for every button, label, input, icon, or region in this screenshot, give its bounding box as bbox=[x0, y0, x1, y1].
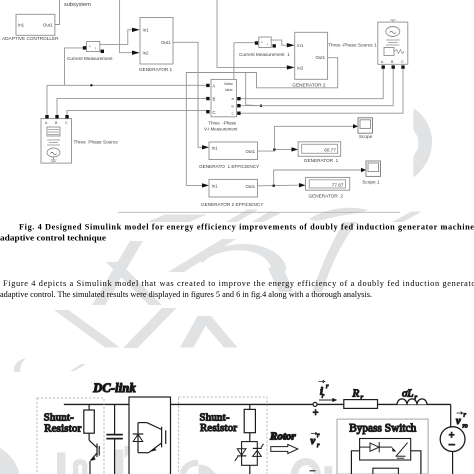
svg-text:r: r bbox=[317, 443, 320, 449]
svg-text:a: a bbox=[232, 96, 235, 101]
bypass inner box 2 bbox=[373, 468, 399, 474]
svg-text:σL: σL bbox=[402, 388, 414, 400]
svg-text:c: c bbox=[232, 111, 234, 116]
wire phase B from source to V-I measurement bbox=[57, 99, 208, 115]
svg-text:subsystem: subsystem bbox=[64, 2, 91, 8]
arrowhead In1 GENERATOR 2 EFFICIENCY bbox=[202, 183, 209, 187]
block Three Phase V-I Measurement bbox=[211, 79, 236, 116]
svg-text:B: B bbox=[213, 97, 216, 102]
svg-text:r: r bbox=[464, 413, 467, 419]
top simulink figure bbox=[2, 0, 408, 212]
wire GENERATOR 1 Out1 down to efficiency block bbox=[173, 42, 202, 147]
block Current Measurement bbox=[87, 42, 100, 52]
caption and paragraph bbox=[0, 222, 474, 299]
right source internal AC symbol bbox=[390, 20, 396, 22]
svg-text:In1: In1 bbox=[143, 28, 150, 33]
svg-text:R: R bbox=[352, 388, 360, 400]
svg-text:V-I Measurement: V-I Measurement bbox=[204, 127, 238, 132]
arrowhead into display GENERATOR 1 bbox=[292, 147, 299, 151]
wire resistor 1 to IGBT Q1 bbox=[88, 433, 90, 440]
svg-text:A: A bbox=[45, 121, 48, 125]
svg-text:In2: In2 bbox=[143, 51, 150, 56]
svg-text:adaptive control. The simulate: adaptive control. The simulated results … bbox=[0, 290, 372, 299]
wire GENERATOR 2 Out1 loop to efficiency 2 bbox=[186, 58, 337, 186]
svg-text:GENERATOR 2: GENERATOR 2 bbox=[309, 194, 344, 199]
capacitor C dc-link bbox=[114, 404, 116, 434]
wire up to Scope bbox=[274, 126, 353, 149]
wire resistor 2 to thyristor pair bbox=[249, 433, 251, 442]
wire up to Scope 1 bbox=[274, 170, 361, 186]
svg-text:r: r bbox=[322, 394, 325, 400]
svg-text:Out1: Out1 bbox=[161, 40, 171, 45]
wire Current Measurement input tap to phase A line bbox=[65, 48, 83, 85]
svg-text:+: + bbox=[261, 41, 263, 45]
svg-text:Resistor: Resistor bbox=[200, 422, 237, 434]
svg-text:DC-link: DC-link bbox=[92, 381, 136, 395]
bottom circuit bbox=[37, 380, 468, 474]
junction dot efficiency 1 bbox=[273, 148, 276, 151]
block GENERATOR 2 bbox=[295, 32, 328, 79]
svg-text:B: B bbox=[391, 60, 394, 64]
wire drop to shunt resistor 1 bbox=[88, 404, 90, 410]
display GENERATOR 2 value 77.87 bbox=[306, 177, 350, 190]
svg-text:C: C bbox=[401, 60, 404, 64]
svg-text:GENERATOR 1: GENERATOR 1 bbox=[139, 67, 173, 72]
wire phase c to right source bbox=[241, 69, 403, 113]
watermark bbox=[0, 109, 432, 474]
bypass inner box 1 bbox=[360, 439, 411, 461]
svg-text:C: C bbox=[65, 121, 68, 125]
arrowhead into Scope 1 bbox=[361, 168, 366, 172]
svg-text:GENERATO 1 EFFICIENCY: GENERATO 1 EFFICIENCY bbox=[199, 164, 260, 169]
svg-text:Figure 4 depicts a Simulink mo: Figure 4 depicts a Simulink model that w… bbox=[3, 279, 474, 288]
block Scope bbox=[358, 118, 373, 133]
wire into Current Measurement 1 from V-I area bbox=[234, 43, 255, 80]
converter block U1 bbox=[129, 397, 171, 474]
svg-text:Scope: Scope bbox=[359, 134, 373, 139]
junction dot phase b bbox=[260, 104, 263, 107]
arrowhead In1 GENERATOR 2 bbox=[287, 43, 295, 47]
junction dot phase A bbox=[90, 84, 92, 86]
svg-text:GENERATOR 2 EFFICIENCY: GENERATOR 2 EFFICIENCY bbox=[201, 202, 264, 207]
resistor R_r bbox=[344, 400, 378, 409]
svg-text:r: r bbox=[326, 384, 329, 390]
block Scope 1 bbox=[366, 161, 381, 176]
wire Current Measurement 1 output to GENERATOR 2 In1 bbox=[271, 40, 287, 45]
svg-text:In1: In1 bbox=[18, 23, 25, 28]
svg-text:A: A bbox=[381, 60, 384, 64]
resistor R shunt 2 bbox=[244, 409, 255, 432]
svg-text:In2: In2 bbox=[297, 65, 304, 70]
dashed enclosure shunt resistor 1 bbox=[37, 398, 104, 474]
svg-text:Out1: Out1 bbox=[246, 184, 256, 189]
svg-text:+: + bbox=[89, 45, 91, 49]
arrowhead into display GENERATOR 2 bbox=[299, 183, 306, 187]
left source ground bbox=[51, 157, 57, 163]
resistor R shunt 1 bbox=[84, 410, 95, 433]
svg-text:Current Measurement 1: Current Measurement 1 bbox=[239, 52, 290, 57]
junction dot efficiency 2 bbox=[272, 184, 275, 187]
source V_ro circle bbox=[440, 427, 465, 452]
arrowhead into Scope bbox=[353, 124, 358, 128]
svg-text:Out1: Out1 bbox=[246, 149, 256, 154]
wire from adaptive controller Out1 up to subsystem bbox=[55, 0, 60, 25]
thyristor pair bracket bbox=[242, 442, 258, 466]
node terminal + bbox=[313, 402, 317, 406]
svg-text:Current Measurement: Current Measurement bbox=[67, 56, 113, 61]
svg-text:v: v bbox=[456, 416, 461, 427]
block ADAPTIVE CONTROLLER bbox=[16, 14, 55, 35]
arrowhead In2 GENERATOR 1 bbox=[132, 51, 140, 55]
inductor sigma L_r bbox=[397, 399, 427, 404]
svg-text:Scope 1: Scope 1 bbox=[362, 179, 380, 184]
svg-text:Three -Phase Source 1: Three -Phase Source 1 bbox=[328, 43, 377, 48]
svg-text:Resistor: Resistor bbox=[44, 422, 81, 434]
display GENERATOR 1 value 60.77 bbox=[298, 142, 341, 157]
arrowhead In1 GENERATOR 1 bbox=[132, 28, 140, 32]
dashed enclosure shunt resistor 2 bbox=[179, 397, 267, 474]
svg-text:+: + bbox=[313, 408, 319, 419]
transistor Q2 (IGBT) in converter bbox=[138, 422, 147, 424]
thyristor T2 right (pointing up) bbox=[253, 450, 262, 456]
wire bottom divider of simulink area bbox=[118, 211, 400, 213]
svg-text:Rotor: Rotor bbox=[269, 431, 296, 443]
svg-text:Vabc: Vabc bbox=[224, 81, 233, 86]
svg-text:GENERATOR 1: GENERATOR 1 bbox=[304, 158, 339, 163]
svg-text:Three -Phase: Three -Phase bbox=[208, 120, 236, 125]
wire bypass right leg bbox=[411, 451, 421, 474]
svg-text:−: − bbox=[449, 438, 456, 452]
wire main rotor top rail bbox=[64, 403, 451, 405]
wire branch from bus down to phase b junction bbox=[246, 73, 258, 106]
svg-text:v: v bbox=[311, 436, 316, 447]
block Three Phase Source (left) bbox=[41, 119, 72, 164]
block GENERATO 1 EFFICIENCY bbox=[209, 142, 258, 160]
svg-text:ADAPTIVE CONTROLLER: ADAPTIVE CONTROLLER bbox=[2, 36, 59, 41]
svg-text:Iabc: Iabc bbox=[225, 87, 233, 92]
wire phase a to right source bbox=[241, 69, 384, 99]
block GENERATOR 2 EFFICIENCY bbox=[209, 179, 258, 197]
wire from top into GENERATOR 1 In2 bbox=[120, 0, 132, 53]
svg-text:i: i bbox=[96, 47, 97, 51]
wire source bottom down bbox=[452, 452, 454, 474]
arrowhead In1 GENERATO 1 EFFICIENCY bbox=[202, 145, 209, 149]
transistor Q1 (IGBT) bbox=[89, 440, 97, 448]
arrowhead In2 GENERATOR 2 bbox=[287, 65, 295, 69]
svg-text:b: b bbox=[232, 103, 235, 108]
svg-text:i: i bbox=[267, 43, 268, 47]
svg-text:A: A bbox=[213, 84, 216, 89]
left source internal resistor icon bbox=[47, 127, 60, 136]
svg-text:In1: In1 bbox=[297, 43, 304, 48]
thyristor T1 left (pointing down) bbox=[237, 449, 246, 456]
svg-text:77.87: 77.87 bbox=[332, 182, 344, 187]
wire from top into GENERATOR 2 In2 bbox=[217, 0, 287, 67]
svg-text:C: C bbox=[213, 110, 216, 115]
bypass switch enclosure bbox=[337, 419, 428, 474]
svg-text:GENERATOR 2: GENERATOR 2 bbox=[292, 83, 326, 88]
left source internal inductor lines bbox=[47, 140, 60, 145]
node terminal - bbox=[310, 470, 316, 472]
thyristor T3 in bypass bbox=[392, 447, 396, 451]
diode D1 in converter bbox=[137, 423, 139, 453]
svg-text:60.77: 60.77 bbox=[324, 147, 336, 152]
svg-text:ro: ro bbox=[463, 424, 468, 430]
rotor block arrow bbox=[271, 444, 298, 453]
right source internal inductor lines bbox=[386, 40, 400, 45]
wire right rail down to source bbox=[450, 404, 452, 427]
svg-text:Three Phase Source: Three Phase Source bbox=[74, 140, 119, 145]
wire bypass left leg bbox=[351, 451, 359, 474]
wire thyristor pair down bbox=[249, 465, 251, 474]
block GENERATOR 1 bbox=[140, 18, 173, 65]
wire phase A from source to V-I measurement bbox=[47, 85, 208, 115]
wire efficiency 1 out to display and scope bbox=[258, 149, 275, 151]
block Three Phase Source 1 (right) bbox=[378, 22, 408, 64]
svg-text:In1: In1 bbox=[212, 183, 219, 188]
diode D2 in bypass bbox=[360, 446, 370, 448]
svg-text:Fig. 4 Designed Simulink model: Fig. 4 Designed Simulink model for energ… bbox=[19, 222, 474, 231]
svg-text:Out1: Out1 bbox=[316, 55, 326, 60]
wire efficiency 2 out to display and scope 1 bbox=[258, 184, 300, 187]
wire Current Measurement output to GENERATOR 1 In1 bbox=[100, 30, 132, 45]
svg-text:B: B bbox=[55, 121, 58, 125]
svg-text:In1: In1 bbox=[212, 145, 219, 150]
svg-text:adaptive control technique: adaptive control technique bbox=[0, 234, 106, 243]
wire IGBT Q1 emitter down bbox=[89, 461, 91, 474]
left source internal AC symbol bbox=[47, 148, 60, 157]
right source internal resistor icon bbox=[384, 48, 394, 56]
svg-text:Out1: Out1 bbox=[43, 23, 53, 28]
block Current Measurement 1 bbox=[259, 37, 271, 48]
svg-text:Bypass Switch: Bypass Switch bbox=[349, 422, 416, 434]
wire phase C from source to V-I measurement bbox=[67, 111, 208, 115]
wire drop to shunt resistor 2 bbox=[249, 404, 251, 409]
wire phase b to right source bbox=[241, 69, 394, 106]
